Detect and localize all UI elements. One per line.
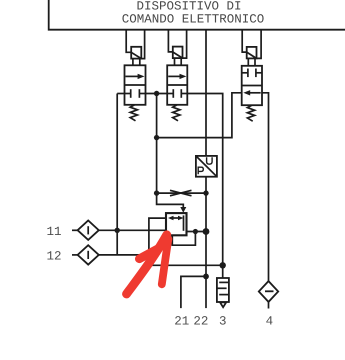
wire V3 right port to test port 4 bbox=[262, 93, 269, 281]
relay valve internal seat bar bbox=[183, 215, 185, 230]
valve V3 body bbox=[242, 66, 262, 105]
wire delivery bus bbox=[205, 193, 207, 308]
wire exhaust line bbox=[149, 264, 223, 266]
wire transducer pressure tap bbox=[205, 177, 207, 193]
wire relay valve outlet bbox=[187, 231, 207, 233]
svg-text:4: 4 bbox=[266, 314, 274, 328]
test port 11 bbox=[72, 221, 99, 240]
node feedback junction bbox=[193, 229, 198, 234]
red annotation arrow bbox=[127, 235, 169, 294]
wire solenoid Y1 left lead bbox=[126, 30, 131, 53]
svg-text:3: 3 bbox=[219, 314, 227, 328]
solenoid coil Y2 bbox=[173, 47, 183, 66]
valve V2 open-position arrow bbox=[168, 74, 186, 79]
valve V3 open-position arrow bbox=[243, 90, 260, 95]
node V1-V2 junction bbox=[154, 91, 159, 96]
svg-text:12: 12 bbox=[47, 250, 62, 264]
node port11 junction bbox=[115, 228, 120, 233]
spring V3 bbox=[247, 105, 254, 121]
svg-text:11: 11 bbox=[47, 225, 62, 239]
valve V2 body bbox=[167, 65, 187, 105]
wire solenoid Y2 left lead bbox=[168, 30, 172, 52]
node restrictor line right bbox=[203, 190, 208, 195]
wire solenoid Y3 left lead bbox=[242, 30, 247, 52]
wire V2 right port to down bus bbox=[187, 94, 222, 266]
wire port 11 line bbox=[98, 229, 166, 231]
svg-text:21: 21 bbox=[174, 314, 189, 328]
restrictor X bbox=[170, 190, 192, 196]
wire pilot dogleg to relay valve bbox=[157, 193, 184, 208]
svg-text:COMANDO ELETTRONICO: COMANDO ELETTRONICO bbox=[122, 12, 265, 26]
electronic control unit box bbox=[49, 0, 345, 30]
valve V1 body bbox=[125, 65, 146, 105]
solenoid coil Y3 bbox=[247, 47, 257, 66]
restrictor line bbox=[157, 192, 206, 194]
wire V1 left port bbox=[117, 93, 124, 95]
wire V1 left column bbox=[116, 94, 118, 255]
wire transducer electric lead bbox=[205, 30, 207, 156]
pilot arrowhead bbox=[180, 207, 186, 213]
node exhaust junction bbox=[220, 262, 226, 268]
wire relay valve upper left port bbox=[149, 218, 166, 265]
wire port 21 bbox=[181, 276, 206, 308]
test port 4 bbox=[259, 281, 278, 308]
svg-text:DISPOSITIVO DI: DISPOSITIVO DI bbox=[136, 0, 241, 13]
wire supply column bbox=[156, 94, 158, 194]
silencer 3 bbox=[217, 278, 229, 307]
valve V3 closed-position ports bbox=[242, 69, 262, 78]
valve V1 closed-position ports bbox=[125, 89, 146, 98]
valve V2 closed-position ports bbox=[167, 89, 187, 98]
wire solenoid Y1 right lead bbox=[141, 30, 144, 59]
valve V1 open-position arrow bbox=[126, 74, 145, 79]
wire port 12 line bbox=[98, 254, 149, 256]
wire V3 left port branch bbox=[157, 93, 242, 138]
node restrictor line left bbox=[154, 190, 159, 195]
wire V1-V2 port link bbox=[146, 93, 168, 95]
wire solenoid Y2 right lead bbox=[183, 30, 187, 58]
test port 12 bbox=[72, 245, 99, 264]
pressure transducer P/U bbox=[196, 156, 217, 177]
svg-text:22: 22 bbox=[193, 314, 208, 328]
relay valve feedback loop bbox=[172, 232, 195, 246]
wire silencer drop bbox=[222, 265, 224, 278]
spring V2 bbox=[173, 105, 180, 121]
spring V1 bbox=[130, 105, 137, 121]
relay valve internal double arrow bbox=[168, 216, 184, 221]
node supply-V3 junction bbox=[154, 135, 159, 140]
solenoid coil Y1 bbox=[131, 47, 141, 66]
node port 21 branch bbox=[203, 274, 209, 280]
node delivery bus junction bbox=[203, 228, 210, 235]
wire solenoid Y3 right lead bbox=[257, 30, 262, 59]
relay valve body bbox=[166, 213, 187, 235]
